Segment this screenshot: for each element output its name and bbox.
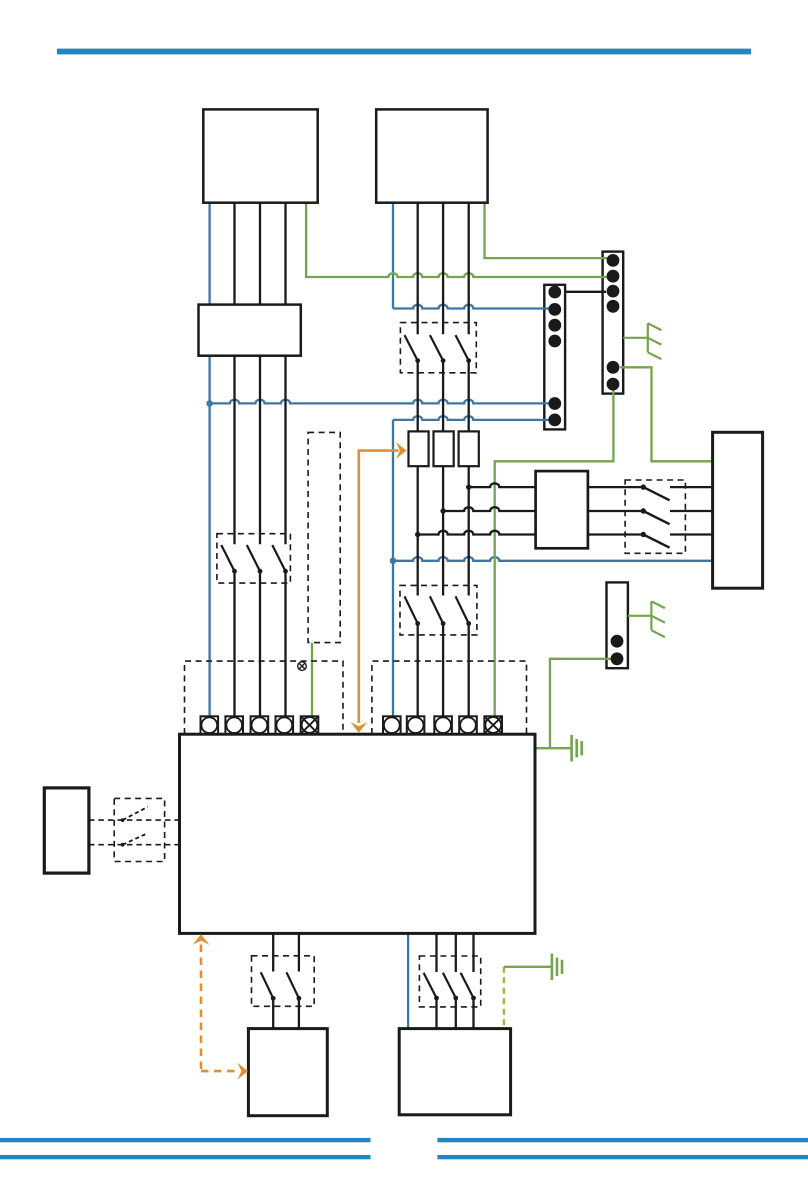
switch BAT-1 blade <box>261 972 273 998</box>
wire battery L1 lower <box>272 998 274 1028</box>
wire PV2 L1 lower vertical <box>417 624 419 718</box>
wire backup L1 lower <box>435 998 437 1029</box>
TB2 terminal dot 2 <box>607 270 620 283</box>
wire PV2 L2 upper vertical <box>442 203 444 334</box>
wire blue B horizontal y308 <box>393 305 552 309</box>
indicator lamp symbol <box>298 662 307 671</box>
wire PV2 L1 upper vertical <box>417 203 419 334</box>
switch BAT-2 blade <box>287 972 299 998</box>
wire battery L1 upper <box>272 934 274 972</box>
ground symbol G2 at backup <box>551 954 554 981</box>
backup load box <box>399 1029 510 1115</box>
fuse F3 <box>459 431 479 466</box>
wire backup L1 upper <box>435 934 437 973</box>
dashed box battery switch <box>252 956 315 1007</box>
inverter terminal GRID PE T10 crossed <box>484 716 502 734</box>
junction dot L2 tap <box>440 508 445 513</box>
switch DC1-2 blade <box>247 545 260 571</box>
dashed comm switch 1 <box>123 807 148 820</box>
switch DC2-3 blade <box>456 335 469 361</box>
switch AC1-2 blade <box>430 596 443 623</box>
battery box <box>248 1029 327 1116</box>
wire PV2 blue vertical <box>392 203 394 309</box>
wire grid L1 left segment <box>469 483 536 487</box>
wire PV1 L1 lower vertical <box>233 571 235 717</box>
wire busbar link TB1-TB2 <box>565 291 606 293</box>
junction dot blue A <box>206 400 213 407</box>
wire grid L2 left segment <box>443 507 535 511</box>
wire inverter ground horizontal <box>535 747 572 749</box>
TB1 terminal dot 1 <box>548 286 561 299</box>
wire battery L2 upper <box>298 934 300 972</box>
inverter main box <box>180 734 536 933</box>
dashed box DC switch 2 <box>400 323 476 373</box>
switch LOAD-1 blade <box>424 973 437 998</box>
PV array 2 box <box>376 109 487 202</box>
wire PE PV2 green <box>485 203 611 258</box>
TB3 terminal dot 1 <box>611 635 624 648</box>
wire backup L3 upper <box>472 934 474 973</box>
wire backup PE dashed vertical <box>503 967 505 1029</box>
wire PV1 L3 lower vertical <box>284 571 286 717</box>
switch GRID-1 blade <box>643 487 669 500</box>
fuse F2 <box>434 431 454 466</box>
wire PV1 L1 upper vertical <box>233 203 235 544</box>
wire PE TB2 to earth symbol <box>623 337 648 339</box>
wire PV2 L1 mid vertical <box>417 361 419 596</box>
inverter terminal PV1- T1 <box>201 716 219 734</box>
switch AC1-1 blade <box>405 596 418 623</box>
N busbar strip TB1 <box>544 285 565 430</box>
top header bar <box>57 49 751 55</box>
combiner box PV1 <box>199 305 301 356</box>
inverter terminal PV1 L3 T4 <box>276 716 294 734</box>
switch GRID-1 pivot dot <box>641 484 646 489</box>
TB1 terminal dot 4 <box>548 335 561 348</box>
TB1 terminal dot 3 <box>548 319 561 332</box>
TB1 terminal dot 5 <box>548 397 561 410</box>
energy meter box <box>536 471 588 548</box>
wire PV1 L2 upper vertical <box>259 203 261 544</box>
dashed box backup breaker <box>419 956 480 1007</box>
switch GRID-3 pivot dot <box>641 532 646 537</box>
TB2 terminal dot 4 <box>607 300 620 313</box>
TB2 terminal dot 5 <box>607 361 620 374</box>
wire grid L2 mid segment <box>588 510 643 512</box>
switch DC2-1 blade <box>405 335 418 361</box>
wire grid L1 right segment <box>670 486 713 488</box>
wire PV1 blue vertical <box>208 203 210 717</box>
wire PV2 L3 upper vertical <box>468 203 470 334</box>
wire grid L3 right segment <box>670 533 713 535</box>
fuse F1 <box>409 431 429 466</box>
orange arrow down to inverter <box>357 449 360 722</box>
orange dashed arrow up to inverter <box>200 945 203 1072</box>
PE busbar strip TB2 <box>603 252 624 394</box>
inverter terminal GRID L1 T7 <box>407 716 425 734</box>
wire PV1 L3 upper vertical <box>284 203 286 544</box>
wire PE TB3 to earth symbol <box>628 615 652 617</box>
wire blue D vertical <box>392 420 394 717</box>
wire PE surge green to terminal <box>311 643 313 718</box>
footer bar left lower <box>0 1155 371 1159</box>
inverter terminal PV1 L2 T3 <box>251 716 269 734</box>
junction dot blue D <box>390 558 397 565</box>
wire grid L3 left segment <box>418 531 536 535</box>
wire PV2 L3 lower vertical <box>468 624 470 718</box>
monitor device box <box>44 788 89 873</box>
wire backup L3 lower <box>472 998 474 1029</box>
wire blue E horizontal y561 <box>393 557 713 561</box>
dashed region grid terminals <box>372 661 527 734</box>
wire PE TB2 down-left to inverter PE terminal <box>495 384 614 717</box>
wire grid L3 mid segment <box>588 533 643 535</box>
switch DC2-2 blade <box>430 335 443 361</box>
switch DC1-1 blade <box>221 545 234 571</box>
junction dot L3 tap <box>466 484 471 489</box>
wire PE PV1 green <box>306 203 610 277</box>
ground symbol G1 at inverter <box>570 735 573 762</box>
wire PV1 L2 lower vertical <box>259 571 261 717</box>
wire backup PE solid <box>504 966 552 968</box>
inverter terminal GRID N T6 <box>383 716 401 734</box>
wire backup L2 upper <box>455 934 457 973</box>
dashed region PV terminals <box>185 661 344 734</box>
TB1 terminal dot 6 <box>548 414 561 427</box>
inverter terminal GRID L3 T9 <box>459 716 477 734</box>
dashed comm switch 2 <box>123 833 148 845</box>
wire blue backup N vertical <box>407 934 409 1029</box>
dashed comm wire 1 <box>89 819 180 821</box>
wire PV2 L2 mid vertical <box>442 361 444 596</box>
grid box <box>713 432 763 588</box>
wire PV2 L3 mid vertical <box>468 361 470 596</box>
wire grid L2 right segment <box>670 510 713 512</box>
switch GRID-2 blade <box>643 511 669 524</box>
junction dot L1 tap <box>415 532 420 537</box>
footer bar right upper <box>437 1138 808 1142</box>
footer bar right lower <box>437 1155 808 1159</box>
TB1 terminal dot 2 <box>548 303 561 316</box>
TB2 terminal dot 3 <box>607 285 620 298</box>
dashed box AC breaker 1 <box>400 585 477 635</box>
inverter terminal GRID L2 T8 <box>434 716 452 734</box>
earth symbol E2 <box>650 601 652 630</box>
switch GRID-3 blade <box>643 535 669 548</box>
wire blue C horizontal y420 <box>393 416 552 420</box>
TB2 terminal dot 1 <box>607 254 620 267</box>
orange dashed arrow to battery <box>201 1070 237 1073</box>
orange arrow to fuse <box>359 449 399 452</box>
switch LOAD-2 blade <box>443 973 456 998</box>
wire PV2 L2 lower vertical <box>442 624 444 718</box>
switch LOAD-3 blade <box>461 973 474 998</box>
wire blue bus A horizontal y403 <box>210 400 552 404</box>
footer bar left upper <box>0 1138 371 1142</box>
TB3 terminal dot 2 <box>611 652 624 665</box>
dashed box comm isolator <box>114 798 164 861</box>
PV array 1 box <box>203 109 317 202</box>
dashed comm wire 2 <box>89 844 180 846</box>
PE terminal strip TB3 <box>607 582 628 668</box>
switch DC1-3 blade <box>272 545 285 571</box>
wire PE TB3 to inverter ground <box>550 659 614 748</box>
dashed box optional SPD <box>308 432 340 642</box>
wire grid L1 mid segment <box>588 486 643 488</box>
wire backup L2 lower <box>455 998 457 1029</box>
wire PE link TB2 to grid box <box>620 367 713 461</box>
dashed box DC switch 1 <box>217 534 291 583</box>
switch GRID-2 pivot dot <box>641 508 646 513</box>
inverter terminal PV1 L1 T2 <box>225 716 243 734</box>
TB2 terminal dot 6 <box>607 378 620 391</box>
dashed box grid switch <box>625 480 685 553</box>
switch AC1-3 blade <box>456 596 469 623</box>
earth symbol E1 <box>647 323 649 352</box>
wire battery L2 lower <box>298 998 300 1028</box>
inverter terminal PV1 PE T5 crossed <box>301 716 319 734</box>
